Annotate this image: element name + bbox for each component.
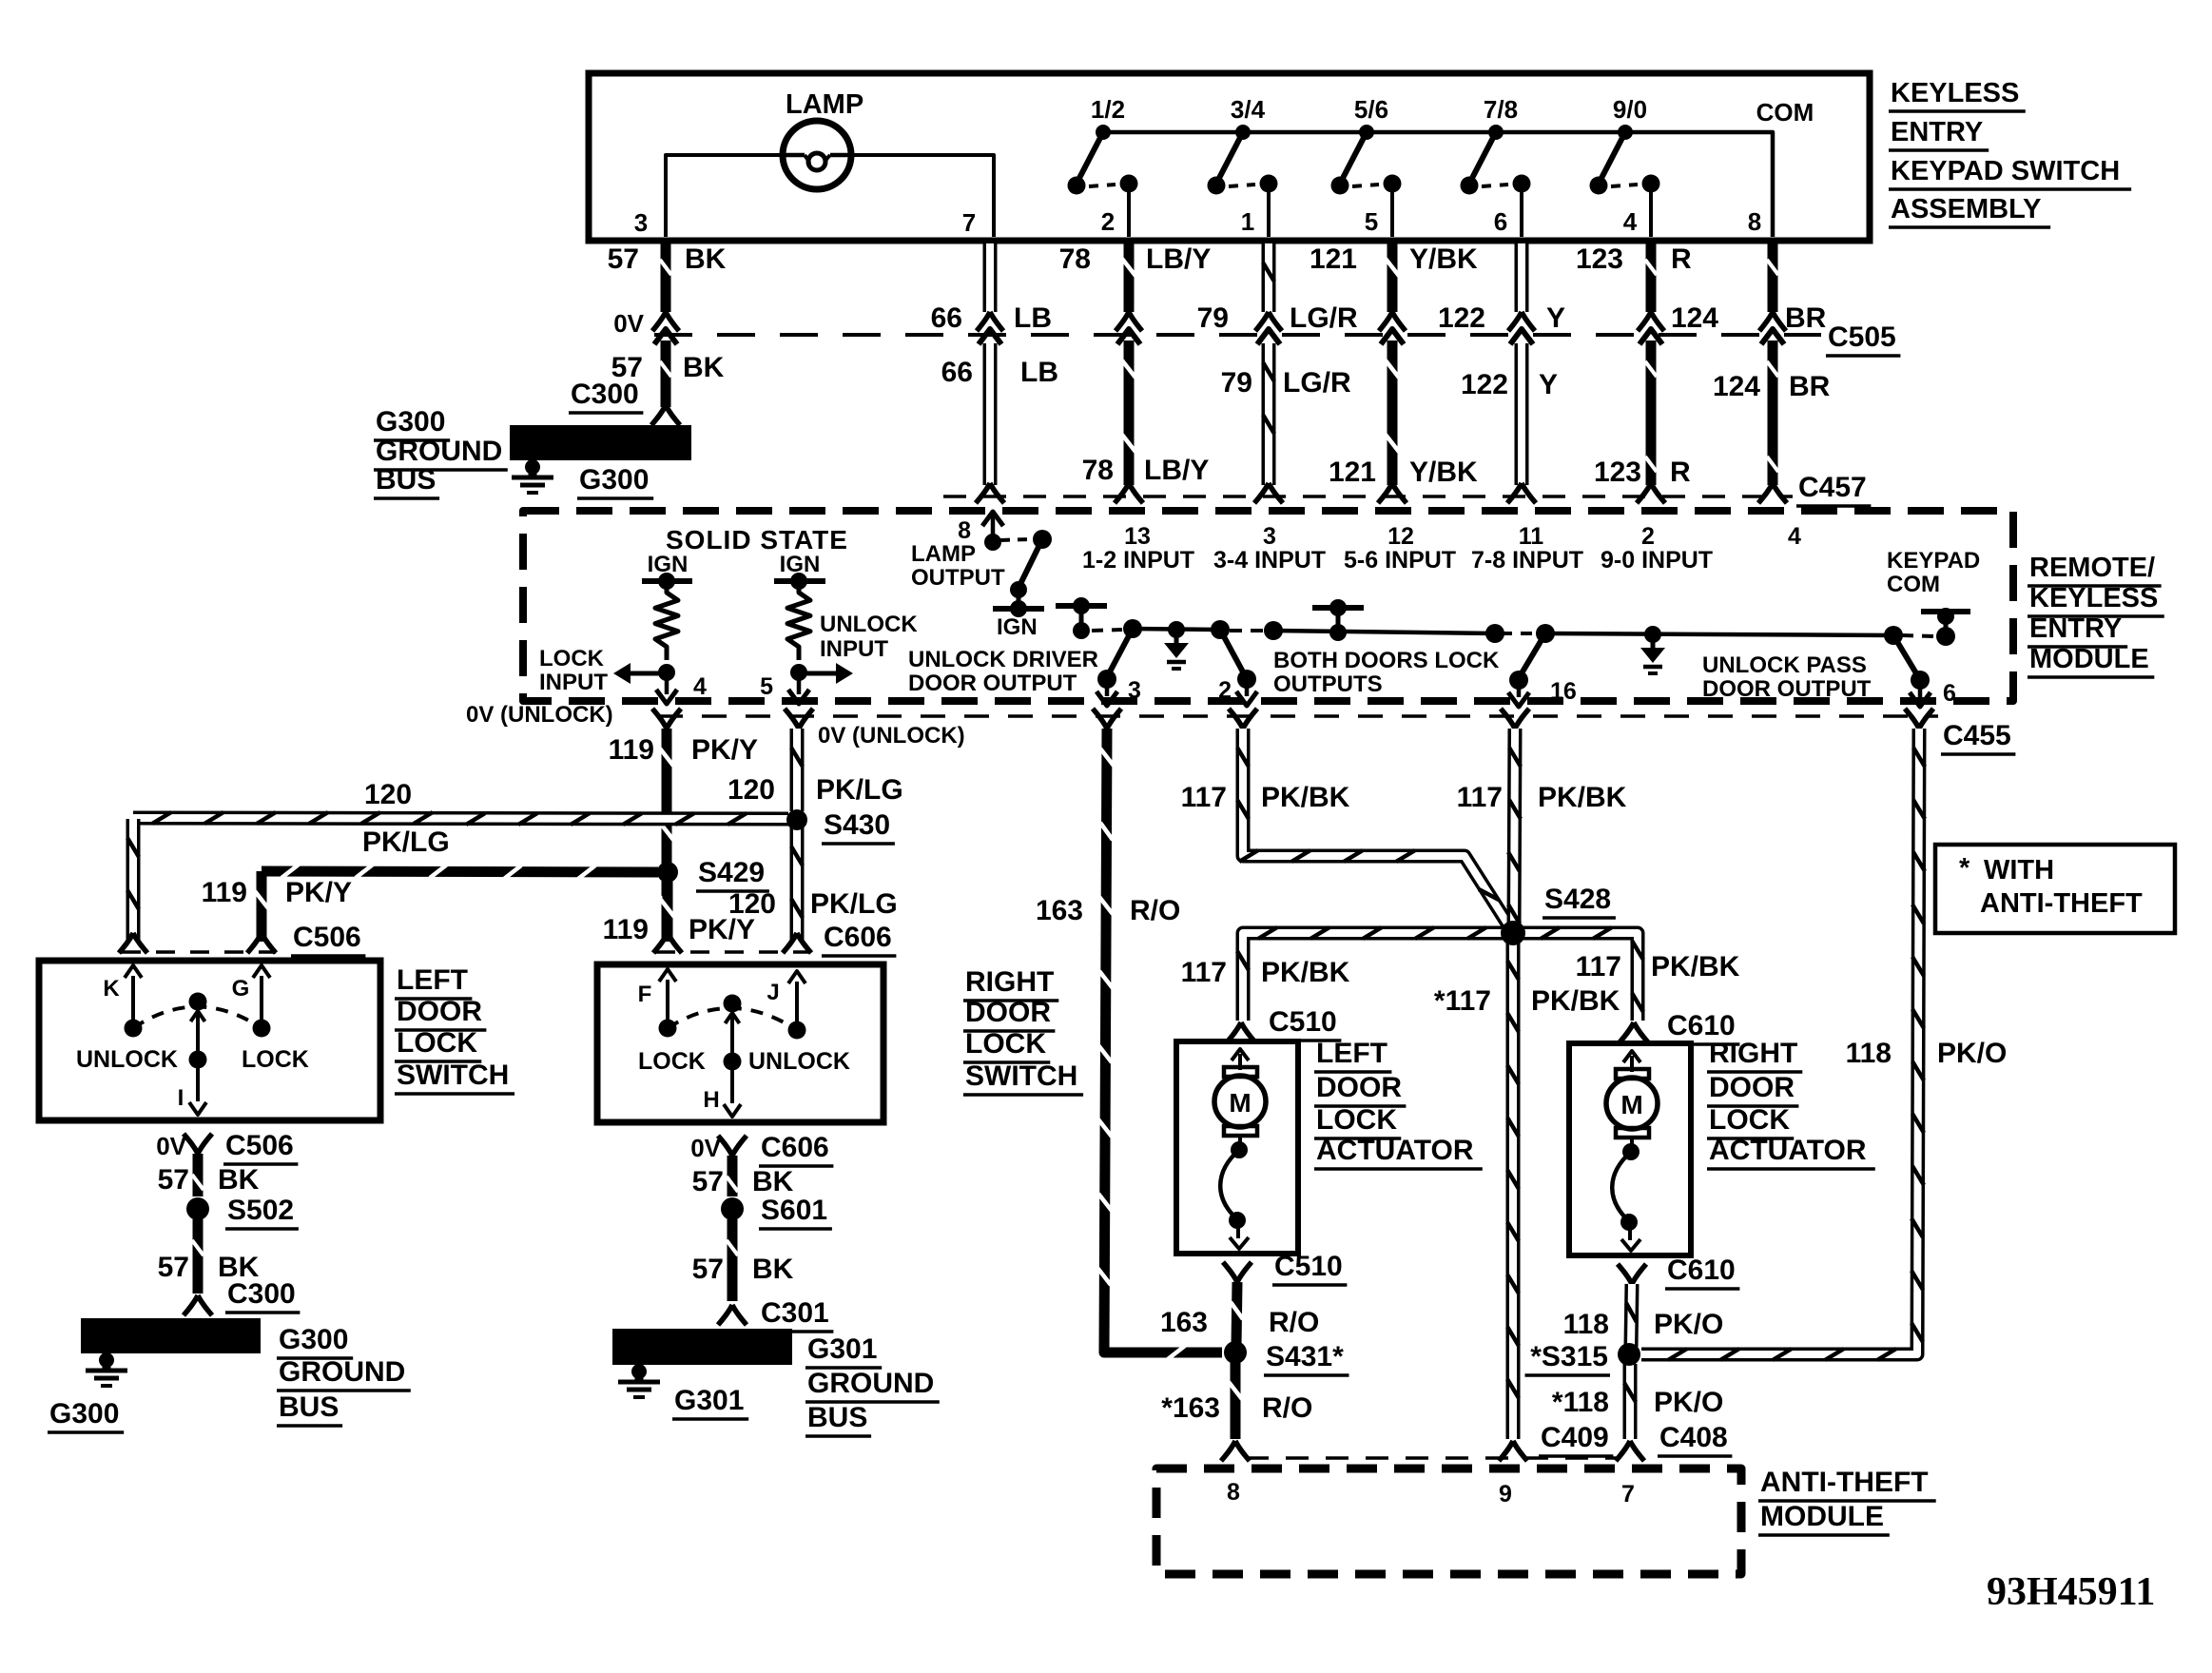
svg-text:BR: BR <box>1789 371 1831 402</box>
svg-text:C610: C610 <box>1667 1255 1736 1286</box>
svg-text:LOCK: LOCK <box>1709 1104 1790 1136</box>
right switch wiper stem <box>726 1013 740 1023</box>
connector C606 claw J <box>783 933 811 953</box>
keypad switch assembly box <box>589 73 1870 241</box>
svg-text:C409: C409 <box>1541 1422 1609 1453</box>
svg-text:Y/BK: Y/BK <box>1409 457 1478 488</box>
ground G300 symbol <box>525 459 540 475</box>
svg-text:8: 8 <box>958 517 971 544</box>
wire 123 R upper <box>1646 239 1657 312</box>
svg-text:LB: LB <box>1014 302 1052 334</box>
svg-text:PK/Y: PK/Y <box>691 734 758 766</box>
svg-text:ENTRY: ENTRY <box>1891 117 1983 147</box>
actuator linkage left <box>1238 1136 1242 1145</box>
svg-text:ACTUATOR: ACTUATOR <box>1316 1135 1474 1166</box>
svg-text:PK/BK: PK/BK <box>1261 782 1350 813</box>
svg-text:57: 57 <box>158 1164 189 1196</box>
svg-text:66: 66 <box>931 302 962 334</box>
connector C606 claw F <box>653 933 682 953</box>
splice S601 <box>721 1197 744 1220</box>
connector C455 claw at x=840 <box>785 709 813 729</box>
svg-text:F: F <box>638 982 652 1007</box>
connector C510 bottom claw <box>1223 1262 1252 1282</box>
svg-text:UNLOCK: UNLOCK <box>748 1048 850 1075</box>
svg-text:BK: BK <box>683 352 725 383</box>
lamp output pin 8 arrow <box>991 516 996 540</box>
relay ground 1 <box>1168 621 1185 638</box>
connector C606 line <box>656 950 808 954</box>
wire 66 LB upper <box>983 243 998 312</box>
svg-text:2: 2 <box>1641 523 1655 550</box>
pin H arrow <box>724 1104 741 1117</box>
svg-text:7-8 INPUT: 7-8 INPUT <box>1471 547 1583 574</box>
svg-text:DOOR: DOOR <box>397 996 482 1027</box>
svg-text:57: 57 <box>692 1166 724 1197</box>
svg-text:78: 78 <box>1059 243 1091 275</box>
ground bus G300 lower bar <box>81 1318 261 1353</box>
svg-text:3/4: 3/4 <box>1231 95 1266 124</box>
svg-text:PK/Y: PK/Y <box>285 877 352 908</box>
svg-text:123: 123 <box>1594 457 1641 488</box>
svg-text:C457: C457 <box>1798 472 1867 503</box>
svg-text:H: H <box>703 1087 719 1113</box>
unlock input arrow <box>799 671 839 676</box>
wire lamp left pin 3 <box>666 155 784 237</box>
wire 117 PK/BK from pin 16 <box>1514 729 1515 927</box>
svg-text:0V (UNLOCK): 0V (UNLOCK) <box>818 723 965 749</box>
relay feed T2 <box>1312 605 1364 611</box>
svg-text:79: 79 <box>1221 367 1252 399</box>
right switch wiper arc <box>668 1008 797 1030</box>
svg-text:S502: S502 <box>227 1195 294 1226</box>
resistor lock input <box>655 581 678 660</box>
svg-text:*117: *117 <box>1434 985 1491 1017</box>
svg-text:Y: Y <box>1539 369 1558 400</box>
svg-text:78: 78 <box>1082 455 1114 486</box>
switch 7/8 <box>1488 125 1504 140</box>
svg-text:J: J <box>766 980 779 1005</box>
svg-text:PK/BK: PK/BK <box>1261 957 1350 988</box>
svg-text:UNLOCK: UNLOCK <box>820 612 918 637</box>
wire 57 BK below C506 <box>193 1154 204 1196</box>
ground bus G300 bar <box>510 425 691 460</box>
relay row line b <box>1273 631 1495 633</box>
svg-text:2: 2 <box>1101 207 1115 236</box>
svg-text:*: * <box>1959 853 1970 884</box>
svg-text:Y/BK: Y/BK <box>1409 243 1478 275</box>
left door lock actuator box <box>1176 1041 1298 1254</box>
pin I arrow <box>189 1102 206 1115</box>
svg-text:118: 118 <box>1846 1038 1892 1069</box>
svg-text:7: 7 <box>962 208 976 237</box>
svg-text:117: 117 <box>1576 951 1621 982</box>
svg-text:PK/BK: PK/BK <box>1531 985 1620 1017</box>
lamp L1 <box>783 121 851 189</box>
module pin 4 arrow <box>665 672 669 694</box>
svg-text:7/8: 7/8 <box>1484 95 1518 124</box>
splice S428 <box>1501 921 1525 945</box>
svg-text:MODULE: MODULE <box>2029 644 2149 674</box>
svg-text:3: 3 <box>1128 677 1141 704</box>
svg-text:57: 57 <box>158 1252 189 1283</box>
pin G arrow <box>260 976 263 1028</box>
module pin 6 arrow <box>1918 680 1923 697</box>
svg-text:121: 121 <box>1329 457 1376 488</box>
svg-text:119: 119 <box>609 734 654 766</box>
pin F arrow <box>666 980 669 1028</box>
wire 120 PK/LG horizontal run <box>133 818 788 819</box>
svg-text:S428: S428 <box>1544 884 1611 915</box>
resistor unlock input <box>787 581 810 660</box>
connector C300 lower <box>184 1295 212 1315</box>
connector C301 <box>718 1305 747 1325</box>
svg-text:LOCK: LOCK <box>242 1046 309 1073</box>
svg-text:R/O: R/O <box>1269 1307 1319 1338</box>
actuator arrow up right <box>1630 1056 1634 1072</box>
wire *117 PK/BK to anti-theft <box>1506 942 1521 1439</box>
splice S502 <box>186 1197 209 1220</box>
svg-text:BK: BK <box>218 1164 260 1196</box>
svg-text:LOCK: LOCK <box>397 1027 477 1059</box>
connector C455 claw at x=701 <box>652 709 681 729</box>
wire 119 PK/Y below S429 <box>663 880 673 942</box>
svg-text:R/O: R/O <box>1262 1392 1312 1424</box>
switch 1/2 <box>1096 125 1111 140</box>
wire 117 PK/BK from pin 2 <box>1243 729 1511 929</box>
splice S430 <box>786 809 807 830</box>
connector line above anti-theft <box>1246 1456 1617 1460</box>
svg-text:G: G <box>232 976 250 1002</box>
svg-text:57: 57 <box>692 1254 724 1285</box>
svg-text:C300: C300 <box>227 1278 296 1310</box>
connector C457 at x=1334 <box>1254 483 1283 503</box>
svg-text:163: 163 <box>1036 895 1083 926</box>
svg-text:S601: S601 <box>761 1195 827 1226</box>
connector C457 at x=1736 <box>1637 483 1665 503</box>
actuator linkage right <box>1630 1138 1634 1147</box>
svg-text:57: 57 <box>608 243 639 275</box>
svg-text:UNLOCK DRIVER: UNLOCK DRIVER <box>908 647 1098 672</box>
svg-text:6: 6 <box>1494 207 1507 236</box>
pin K arrow <box>131 976 135 1028</box>
connector C300 <box>651 405 680 425</box>
svg-text:BUS: BUS <box>807 1402 867 1433</box>
svg-text:5-6 INPUT: 5-6 INPUT <box>1344 547 1456 574</box>
connector C408 claw <box>1616 1441 1644 1461</box>
svg-text:GROUND: GROUND <box>376 436 502 467</box>
svg-text:93H45911: 93H45911 <box>1987 1570 2155 1614</box>
svg-text:2: 2 <box>1218 677 1232 704</box>
module pin 2 arrow <box>1245 679 1250 696</box>
connector C610 top claw <box>1620 1022 1648 1042</box>
svg-text:REMOTE/: REMOTE/ <box>2029 553 2155 583</box>
connector C610 bottom claw <box>1618 1264 1646 1284</box>
relay feed T3 <box>1936 627 1955 646</box>
svg-text:LB: LB <box>1020 357 1058 388</box>
wire 123 R lower <box>1646 340 1657 485</box>
svg-text:GROUND: GROUND <box>279 1356 405 1388</box>
svg-text:BK: BK <box>752 1254 794 1285</box>
ground G301 symbol <box>631 1364 647 1379</box>
svg-text:DOOR OUTPUT: DOOR OUTPUT <box>1702 676 1872 702</box>
connector C505 at x=1600 <box>1508 312 1535 331</box>
module pin 3 arrow <box>1105 679 1110 696</box>
keypad common rail <box>1103 132 1773 237</box>
wire 78 LB/Y upper <box>1124 239 1135 312</box>
svg-text:OUTPUT: OUTPUT <box>911 565 1005 591</box>
svg-text:BR: BR <box>1785 302 1827 334</box>
wire 117 PK/BK to left actuator <box>1243 933 1505 1021</box>
svg-text:DOOR: DOOR <box>1316 1072 1402 1103</box>
connector C455 claw at x=1164 <box>1093 709 1121 729</box>
right door lock actuator box <box>1569 1043 1691 1255</box>
svg-text:C300: C300 <box>571 379 639 410</box>
motor M right <box>1616 1069 1649 1079</box>
svg-text:7: 7 <box>1621 1481 1635 1508</box>
wire 118 PK/O from pin 6 <box>1641 729 1919 1354</box>
svg-text:BK: BK <box>752 1166 794 1197</box>
IGN feed for lamp switch <box>993 606 1044 612</box>
wire 78 LB/Y lower <box>1124 340 1135 485</box>
relay lever pin 16 <box>1519 633 1545 678</box>
svg-text:LOCK: LOCK <box>1316 1104 1397 1136</box>
wire 163 R/O below left actuator <box>1236 1282 1237 1345</box>
connector claw *163 pin 8 <box>1221 1441 1250 1461</box>
wire 57 BK to C300 <box>661 340 671 407</box>
wire 119 PK/Y from pin 4 <box>662 729 672 942</box>
svg-text:9-0 INPUT: 9-0 INPUT <box>1601 547 1713 574</box>
svg-text:R: R <box>1670 457 1691 488</box>
wire 121 Y/BK lower <box>1387 340 1398 485</box>
svg-text:3-4 INPUT: 3-4 INPUT <box>1213 547 1326 574</box>
wire 120 PK/LG below S430 <box>790 827 805 942</box>
svg-text:119: 119 <box>202 877 247 908</box>
actuator arrow up <box>1238 1054 1242 1070</box>
svg-text:*118: *118 <box>1552 1387 1609 1418</box>
svg-text:SOLID STATE: SOLID STATE <box>666 525 848 554</box>
relay pivot pin6 <box>1884 626 1903 645</box>
relay pivot pin16 <box>1536 624 1555 643</box>
svg-text:DOOR: DOOR <box>965 997 1051 1028</box>
connector C457 at x=1864 <box>1758 483 1787 503</box>
svg-text:BK: BK <box>685 243 727 275</box>
svg-text:124: 124 <box>1671 302 1718 334</box>
relay row dash 1 <box>1092 630 1122 631</box>
svg-text:R/O: R/O <box>1130 895 1180 926</box>
connector C455 claw at x=1307 <box>1229 709 1257 729</box>
connector C457 at x=1464 <box>1378 483 1407 503</box>
svg-text:UNLOCK: UNLOCK <box>76 1046 178 1073</box>
connector C409 claw <box>1499 1441 1527 1461</box>
svg-text:LB/Y: LB/Y <box>1146 243 1211 275</box>
unlock input node <box>790 664 807 681</box>
svg-text:LEFT: LEFT <box>1316 1038 1387 1069</box>
svg-text:121: 121 <box>1310 243 1357 275</box>
svg-text:G301: G301 <box>674 1385 744 1416</box>
connector C510 top claw <box>1227 1022 1255 1042</box>
with anti-theft note box <box>1935 845 2175 933</box>
relay row line a <box>1133 629 1220 630</box>
svg-text:G301: G301 <box>807 1333 877 1365</box>
relay pivot pin2 <box>1211 620 1230 639</box>
svg-text:LOCK: LOCK <box>539 646 605 671</box>
svg-text:122: 122 <box>1438 302 1485 334</box>
connector C506 claw G <box>247 933 276 953</box>
svg-text:ANTI-THEFT: ANTI-THEFT <box>1760 1467 1929 1498</box>
svg-text:C506: C506 <box>225 1130 294 1161</box>
svg-text:C510: C510 <box>1274 1251 1343 1282</box>
svg-text:5: 5 <box>1365 207 1378 236</box>
splice S315 <box>1618 1343 1640 1366</box>
svg-text:PK/BK: PK/BK <box>1538 782 1627 813</box>
svg-text:C506: C506 <box>293 922 361 953</box>
svg-text:LOCK: LOCK <box>965 1028 1046 1060</box>
svg-text:117: 117 <box>1181 782 1227 813</box>
svg-text:0V: 0V <box>613 309 644 338</box>
svg-text:5: 5 <box>760 673 773 700</box>
switch 9/0 <box>1618 125 1633 140</box>
motor M left <box>1224 1067 1257 1077</box>
svg-text:4: 4 <box>1788 523 1801 550</box>
svg-text:9/0: 9/0 <box>1613 95 1647 124</box>
svg-text:UNLOCK PASS: UNLOCK PASS <box>1702 652 1867 678</box>
wire 119 PK/Y left drop to G <box>257 871 267 942</box>
right switch contacts <box>659 1020 677 1038</box>
switch 5/6 <box>1359 125 1374 140</box>
svg-text:120: 120 <box>364 779 412 810</box>
svg-text:BUS: BUS <box>376 464 436 496</box>
svg-text:3: 3 <box>634 208 648 237</box>
svg-text:SWITCH: SWITCH <box>397 1060 509 1091</box>
connector C505 at x=1041 <box>977 312 1003 331</box>
svg-text:1/2: 1/2 <box>1091 95 1125 124</box>
unlock input IGN bar <box>774 578 825 584</box>
svg-text:G300: G300 <box>279 1324 348 1355</box>
svg-text:118: 118 <box>1563 1309 1609 1340</box>
svg-text:117: 117 <box>1181 957 1227 988</box>
relay lever pin 2 <box>1220 630 1246 677</box>
wire 120 PK/LG left drop to K <box>126 819 141 942</box>
connector C505 at x=1187 <box>1116 312 1142 331</box>
connector C455 line <box>658 714 1938 718</box>
module pin 16 arrow <box>1517 680 1522 697</box>
svg-text:R: R <box>1671 243 1692 275</box>
svg-text:M: M <box>1620 1090 1642 1119</box>
svg-text:16: 16 <box>1550 678 1577 705</box>
wire 119 PK/Y horizontal run <box>262 871 658 872</box>
wire 66 LB lower <box>983 343 998 485</box>
svg-text:PK/LG: PK/LG <box>816 774 903 806</box>
svg-text:Y: Y <box>1546 302 1565 334</box>
svg-text:DOOR OUTPUT: DOOR OUTPUT <box>908 671 1077 696</box>
svg-text:ASSEMBLY: ASSEMBLY <box>1891 194 2041 224</box>
svg-text:BOTH DOORS LOCK: BOTH DOORS LOCK <box>1273 648 1500 673</box>
svg-text:OUTPUTS: OUTPUTS <box>1273 671 1383 697</box>
svg-text:1-2 INPUT: 1-2 INPUT <box>1082 547 1194 574</box>
svg-text:LAMP: LAMP <box>911 541 976 567</box>
svg-text:4: 4 <box>1623 207 1638 236</box>
svg-text:C606: C606 <box>824 922 892 953</box>
svg-text:COM: COM <box>1756 98 1814 126</box>
connector C457 at x=1187 <box>1115 483 1143 503</box>
pin J arrow <box>795 982 799 1030</box>
svg-text:117: 117 <box>1457 782 1503 813</box>
ground bus G301 bar <box>612 1329 792 1365</box>
splice S429 <box>657 862 678 883</box>
svg-text:LEFT: LEFT <box>397 964 468 996</box>
svg-text:INPUT: INPUT <box>820 636 888 662</box>
svg-text:1: 1 <box>1241 207 1254 236</box>
relay feed T1 <box>1056 603 1107 609</box>
svg-text:9: 9 <box>1499 1481 1512 1508</box>
svg-text:BUS: BUS <box>279 1391 339 1423</box>
relay ground 2 <box>1644 626 1661 643</box>
right door lock switch box <box>597 964 883 1122</box>
relay lever pin 6 <box>1893 635 1919 678</box>
svg-text:13: 13 <box>1124 523 1151 550</box>
svg-text:79: 79 <box>1197 302 1229 334</box>
connector C506 lower claw <box>184 1134 212 1154</box>
anti-theft module box <box>1156 1469 1741 1574</box>
svg-text:M: M <box>1229 1088 1251 1118</box>
wire 121 Y/BK upper <box>1387 239 1398 312</box>
left switch wiper arc <box>133 1007 262 1029</box>
svg-text:11: 11 <box>1519 523 1544 550</box>
connector C505 at x=1864 <box>1759 312 1786 331</box>
svg-text:8: 8 <box>1748 207 1761 236</box>
svg-text:SWITCH: SWITCH <box>965 1060 1077 1092</box>
left switch wiper stem <box>191 1011 205 1021</box>
svg-text:INPUT: INPUT <box>539 670 608 695</box>
connector C505 at x=1464 <box>1379 312 1406 331</box>
svg-text:LG/R: LG/R <box>1290 302 1358 334</box>
remote keyless entry module box <box>523 511 2013 701</box>
connector C505 at x=1736 <box>1638 312 1664 331</box>
relay row line c <box>1545 633 1893 635</box>
lamp output switch <box>984 534 1001 551</box>
svg-text:PK/O: PK/O <box>1937 1038 2007 1069</box>
connector C505 line <box>654 333 1821 337</box>
relay row dash 2 <box>1230 629 1265 632</box>
svg-text:PK/O: PK/O <box>1654 1309 1723 1340</box>
svg-text:LB/Y: LB/Y <box>1144 455 1209 486</box>
svg-text:123: 123 <box>1576 243 1623 275</box>
svg-text:S429: S429 <box>698 857 765 888</box>
connector C505 at x=700 <box>652 312 679 331</box>
wire 163 R/O from pin 3 <box>1104 729 1222 1352</box>
svg-text:120: 120 <box>728 774 775 806</box>
svg-text:*163: *163 <box>1161 1392 1220 1424</box>
connector C455 claw at x=1593 <box>1501 709 1529 729</box>
svg-text:*S315: *S315 <box>1530 1341 1608 1372</box>
relay row dash 3 <box>1501 632 1533 635</box>
connector C457 line <box>943 495 1793 498</box>
svg-text:DOOR: DOOR <box>1709 1072 1795 1103</box>
svg-text:4: 4 <box>693 673 707 700</box>
wire 79 LG/R lower <box>1262 343 1276 485</box>
svg-text:PK/O: PK/O <box>1654 1387 1723 1418</box>
svg-text:KEYPAD: KEYPAD <box>1887 548 1980 574</box>
svg-text:IGN: IGN <box>997 614 1038 640</box>
svg-text:C408: C408 <box>1659 1422 1728 1453</box>
wire 57 BK to C301 <box>728 1219 738 1301</box>
wire 57 BK to C300 <box>193 1219 204 1294</box>
svg-text:3: 3 <box>1263 523 1276 550</box>
svg-text:C455: C455 <box>1943 720 2011 751</box>
svg-text:S431*: S431* <box>1266 1341 1344 1372</box>
svg-text:G300: G300 <box>579 464 649 496</box>
svg-text:MODULE: MODULE <box>1760 1501 1884 1532</box>
